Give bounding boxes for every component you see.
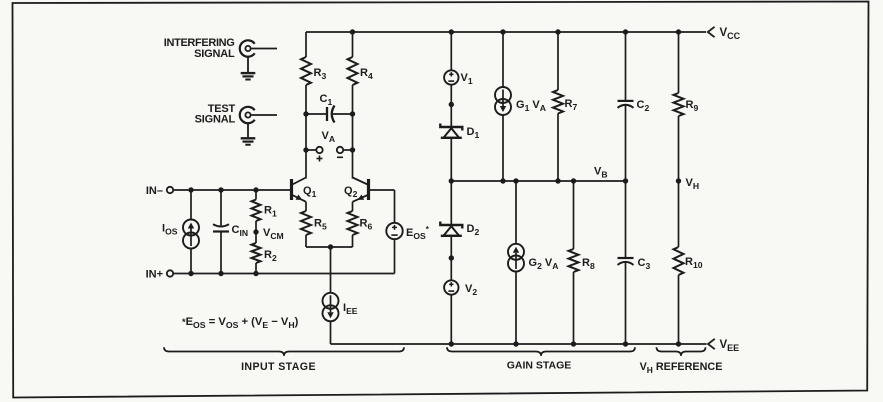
resistor R3 [301, 32, 326, 114]
voltage source EOS [370, 190, 430, 274]
wire emitter junction (R5-R6 bottoms) [306, 244, 353, 249]
svg-text:C3: C3 [638, 257, 651, 271]
node IN- input [146, 185, 173, 197]
wire IN+ rail to EOS [173, 271, 394, 276]
svg-text:Q1: Q1 [303, 185, 317, 199]
svg-text:G2 VA: G2 VA [529, 257, 559, 271]
svg-text:C2: C2 [637, 99, 650, 113]
capacitor C1 [303, 93, 355, 123]
svg-text:GAIN STAGE: GAIN STAGE [507, 360, 572, 372]
node VA port (+/-) [303, 114, 355, 162]
svg-text:VEE: VEE [720, 339, 740, 353]
svg-text:IN+: IN+ [146, 269, 163, 281]
wire VCC rail [306, 31, 706, 33]
node V1/D1 junction [449, 102, 454, 107]
wire VB rail [449, 178, 629, 183]
resistor R2 [252, 232, 277, 274]
svg-text:IOS: IOS [162, 223, 178, 237]
zener diode D1 [440, 105, 479, 182]
controlled current source G2 [508, 181, 558, 344]
svg-text:R7: R7 [565, 98, 578, 112]
svg-text:R5: R5 [314, 218, 327, 232]
test signal source [195, 103, 277, 126]
brace GAIN STAGE [447, 347, 635, 371]
svg-text:IEE: IEE [343, 302, 358, 316]
wire IN- rail to Q1 base [173, 187, 290, 192]
svg-text:C1: C1 [320, 93, 333, 107]
interfering signal source [164, 37, 277, 60]
svg-text:R8: R8 [582, 257, 595, 271]
note: EOS definition formula [182, 316, 299, 330]
svg-text:SIGNAL: SIGNAL [195, 114, 236, 126]
ground (interfering signal) [241, 57, 256, 80]
resistor R5 [301, 202, 327, 247]
node VCC terminal [708, 27, 741, 41]
transistor Q2 [344, 150, 369, 202]
svg-text:G1 VA: G1 VA [516, 99, 546, 113]
svg-text:R9: R9 [686, 99, 699, 113]
brace INPUT STAGE [164, 347, 404, 373]
svg-text:R3: R3 [314, 67, 327, 81]
resistor R7 [553, 32, 577, 181]
resistor R4 [348, 32, 373, 114]
svg-text:VCC: VCC [720, 27, 741, 41]
node D2/V2 junction [449, 255, 454, 260]
svg-text:R10: R10 [685, 256, 703, 270]
svg-text:R6: R6 [360, 218, 373, 232]
brace VH REFERENCE [640, 347, 723, 374]
svg-text:VH: VH [686, 177, 700, 191]
node VEE terminal [708, 339, 739, 353]
junction dots on VCC rail [350, 29, 681, 34]
svg-text:VB: VB [594, 166, 608, 180]
svg-text:EOS*: EOS* [406, 225, 430, 241]
svg-text:D2: D2 [467, 223, 480, 237]
svg-text:VCM: VCM [263, 227, 284, 241]
current source IOS [162, 190, 199, 274]
capacitor CIN [213, 190, 248, 274]
controlled current source G1 [495, 32, 546, 181]
svg-text:R4: R4 [360, 67, 373, 81]
resistor R9 [674, 32, 699, 181]
voltage source V1 [444, 32, 473, 105]
transistor Q1 [292, 150, 317, 202]
svg-text:CIN: CIN [232, 224, 249, 238]
zener diode D2 [440, 181, 479, 258]
node VB label [594, 166, 608, 180]
capacitor C3 [618, 181, 651, 344]
node VCM [253, 227, 283, 241]
svg-text:INPUT STAGE: INPUT STAGE [241, 361, 316, 373]
svg-text:D1: D1 [467, 126, 480, 140]
svg-text:VA: VA [322, 130, 336, 144]
svg-text:SIGNAL: SIGNAL [194, 48, 235, 60]
resistor R1 [252, 190, 277, 232]
resistor R6 [348, 202, 373, 247]
ground (test signal) [241, 123, 256, 145]
node IN+ input [146, 269, 174, 281]
wire VEE rail [331, 341, 707, 346]
capacitor C2 [618, 32, 650, 181]
svg-text:R2: R2 [264, 249, 277, 263]
svg-text:VH REFERENCE: VH REFERENCE [640, 361, 723, 375]
voltage source V2 [444, 258, 477, 344]
svg-text:Q2: Q2 [344, 185, 358, 199]
svg-text:R1: R1 [264, 205, 277, 219]
current source IEE [323, 247, 358, 344]
node VH [676, 177, 699, 191]
svg-text:*EOS = VOS + (VE − VH): *EOS = VOS + (VE − VH) [182, 316, 299, 330]
resistor R8 [569, 181, 595, 344]
svg-text:V2: V2 [465, 283, 477, 297]
resistor R10 [674, 181, 703, 344]
svg-text:IN–: IN– [146, 185, 163, 197]
svg-text:V1: V1 [461, 72, 473, 86]
